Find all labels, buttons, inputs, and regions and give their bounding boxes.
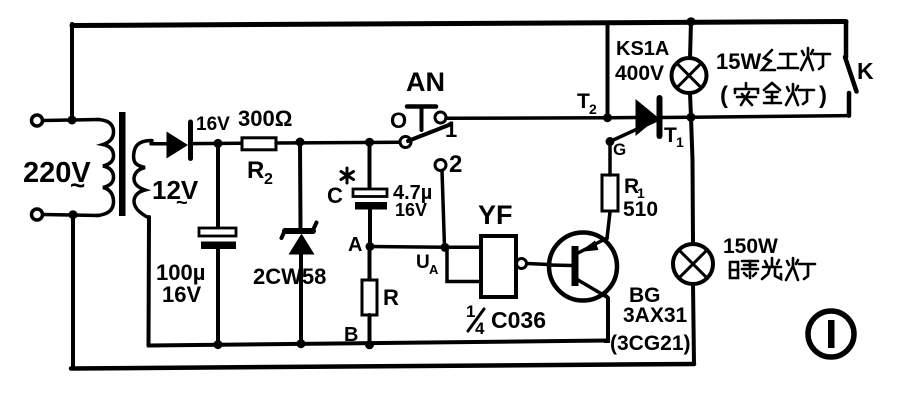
- hanzi guang: [762, 258, 781, 279]
- switch K blade: [845, 57, 857, 92]
- svg-text:R: R: [383, 285, 399, 310]
- svg-text:2: 2: [589, 101, 597, 117]
- svg-text:1: 1: [676, 134, 684, 150]
- label 220V: [23, 157, 91, 200]
- transistor BG circle: [549, 233, 617, 301]
- switch AN contact 1: [435, 112, 446, 123]
- hanzi deng1: [801, 48, 830, 70]
- label R1 510: [623, 175, 658, 221]
- terminal upper 220V input: [32, 115, 43, 126]
- capacitor C 4.7u: [353, 189, 387, 210]
- wire 150W lamp lower lead: [693, 284, 694, 364]
- svg-text:YF: YF: [478, 200, 513, 230]
- wire node A to resistor R: [368, 247, 372, 281]
- node B: [365, 340, 374, 349]
- transistor collector lead: [578, 280, 606, 297]
- node thyristor cathode junction: [687, 113, 696, 122]
- thyristor T1 gate lead: [610, 120, 658, 142]
- resistor R1 body: [602, 175, 618, 211]
- svg-text:AN: AN: [406, 67, 445, 97]
- node zener tap: [296, 138, 305, 147]
- svg-text:2: 2: [449, 151, 462, 178]
- wire R2 to switch contact: [276, 140, 400, 144]
- node junction top-left: [68, 116, 77, 125]
- wire inner ground rail: [149, 341, 608, 346]
- switch K bottom stub: [847, 93, 852, 116]
- wire contact 2 down to UA node: [442, 171, 445, 248]
- gate output bubble: [517, 259, 527, 269]
- node G: [606, 137, 615, 146]
- svg-text:2: 2: [264, 171, 273, 188]
- terminal lower 220V input: [32, 209, 43, 220]
- wire left vertical from top bus to terminal: [70, 24, 74, 120]
- svg-text:16V: 16V: [196, 114, 230, 135]
- diode D rectifier: [167, 122, 191, 159]
- svg-text:16V: 16V: [162, 282, 201, 307]
- svg-text:150W: 150W: [723, 235, 778, 258]
- transformer core: [119, 112, 126, 216]
- label parens safety lamp: [720, 82, 827, 109]
- resistor R2 body: [242, 138, 276, 150]
- svg-text:15W: 15W: [716, 49, 761, 74]
- hanzi pu (bao): [730, 261, 758, 278]
- resistor R body: [362, 280, 377, 315]
- hanzi deng2: [786, 84, 814, 105]
- svg-text:B: B: [344, 324, 358, 346]
- node T2: [603, 113, 612, 122]
- capacitor 100u 16V: [199, 228, 236, 249]
- label BG 3AX31 (3CG21): [610, 284, 691, 355]
- svg-text:R: R: [247, 157, 264, 184]
- label 1/4 C036: [466, 302, 546, 338]
- wire 150W lamp upper lead: [691, 117, 693, 244]
- label KS1A 400V: [615, 38, 669, 85]
- wire red lamp upper lead: [690, 22, 691, 58]
- svg-text:510: 510: [623, 198, 658, 221]
- label 100u 16V: [156, 260, 205, 307]
- wire contact 1 to T2: [446, 116, 608, 120]
- hanzi quan: [764, 83, 781, 103]
- wire secondary top to diode: [151, 142, 167, 146]
- node UA junction: [441, 243, 450, 252]
- switch AN contact 2: [435, 160, 446, 171]
- label R2: [247, 157, 273, 188]
- gate YF body: [481, 236, 516, 297]
- label T1: [664, 124, 684, 150]
- svg-text:KS1A: KS1A: [616, 38, 669, 60]
- transistor base lead: [549, 263, 572, 267]
- wire junction to K switch corner: [691, 116, 849, 118]
- wire 100u cap lower lead: [216, 249, 220, 345]
- node 100u tap: [214, 139, 223, 148]
- transformer secondary winding: [134, 141, 152, 219]
- svg-text:): ): [819, 82, 827, 109]
- wire red lamp lower lead: [690, 93, 691, 117]
- wire C cap upper lead: [368, 142, 372, 189]
- transistor emitter lead with arrow: [578, 238, 607, 253]
- wire terminal lower to transformer primary bottom: [43, 215, 99, 216]
- pushbutton AN cap: [407, 107, 436, 131]
- label T2: [577, 90, 597, 117]
- wire R to node B: [368, 315, 372, 345]
- wire collector down to ground rail: [605, 296, 608, 341]
- svg-text:C: C: [327, 183, 343, 208]
- wire zener lower lead: [299, 254, 303, 344]
- figure number circled 1: [808, 311, 854, 357]
- zener diode 2CW58: [282, 223, 317, 255]
- label 12V: [152, 175, 199, 214]
- wire diode to R2: [193, 142, 242, 146]
- svg-text:U: U: [416, 252, 430, 273]
- gate loop wires to YF input: [445, 247, 481, 281]
- node C tap: [365, 138, 374, 147]
- hanzi deng3: [786, 258, 815, 280]
- wire T2 drop from top bus: [606, 23, 610, 118]
- wire secondary bottom down to inner ground rail: [147, 217, 152, 346]
- svg-text:O: O: [390, 108, 407, 133]
- wire top bus: [72, 22, 846, 26]
- svg-text:~: ~: [70, 170, 85, 200]
- svg-text:A: A: [348, 234, 362, 256]
- svg-text:~: ~: [176, 192, 188, 214]
- switch K top stub: [844, 22, 849, 58]
- svg-text:(: (: [720, 82, 728, 109]
- label 4.7u 16V: [393, 182, 432, 220]
- svg-text:(3CG21): (3CG21): [610, 332, 691, 355]
- svg-text:A: A: [429, 262, 439, 277]
- node top bus red lamp tap: [687, 17, 696, 26]
- node 100u at ground rail: [214, 340, 223, 349]
- wire left outer vertical down: [71, 215, 75, 369]
- thyristor T1: [612, 98, 688, 136]
- svg-text:1: 1: [445, 117, 457, 142]
- switch AN blade: [408, 125, 449, 141]
- svg-text:4: 4: [475, 319, 485, 338]
- svg-text:300Ω: 300Ω: [238, 106, 292, 131]
- transistor base bar: [572, 246, 579, 286]
- wire R1 top to gate node G: [608, 145, 612, 175]
- hanzi an: [735, 83, 758, 105]
- node A: [366, 242, 375, 251]
- svg-text:16V: 16V: [395, 200, 427, 220]
- lamp 15W red: [672, 58, 707, 93]
- wire bottom outer bus: [71, 364, 694, 369]
- svg-text:K: K: [857, 58, 874, 84]
- wire emitter up to R1: [607, 212, 610, 239]
- svg-text:3AX31: 3AX31: [623, 304, 688, 327]
- svg-text:G: G: [613, 140, 626, 159]
- node zener at ground rail: [297, 339, 306, 348]
- lamp 150W exposure: [673, 244, 713, 284]
- wire zener upper lead: [298, 142, 303, 228]
- wire node A to UA node: [370, 245, 445, 249]
- svg-text:400V: 400V: [615, 62, 664, 85]
- wire terminal upper to transformer primary: [43, 120, 99, 121]
- wire gate output to transistor base: [527, 264, 549, 265]
- wire 100u cap upper lead: [216, 143, 220, 228]
- transformer T primary winding: [97, 120, 114, 216]
- label star: [341, 168, 354, 183]
- hanzi hong: [762, 50, 798, 70]
- label UA: [416, 252, 439, 277]
- wire C cap lower lead to node A: [368, 209, 372, 247]
- switch AN left contact: [400, 137, 411, 148]
- node junction lower-left: [69, 210, 78, 219]
- svg-text:2CW58: 2CW58: [253, 264, 326, 289]
- svg-text:C036: C036: [491, 307, 546, 333]
